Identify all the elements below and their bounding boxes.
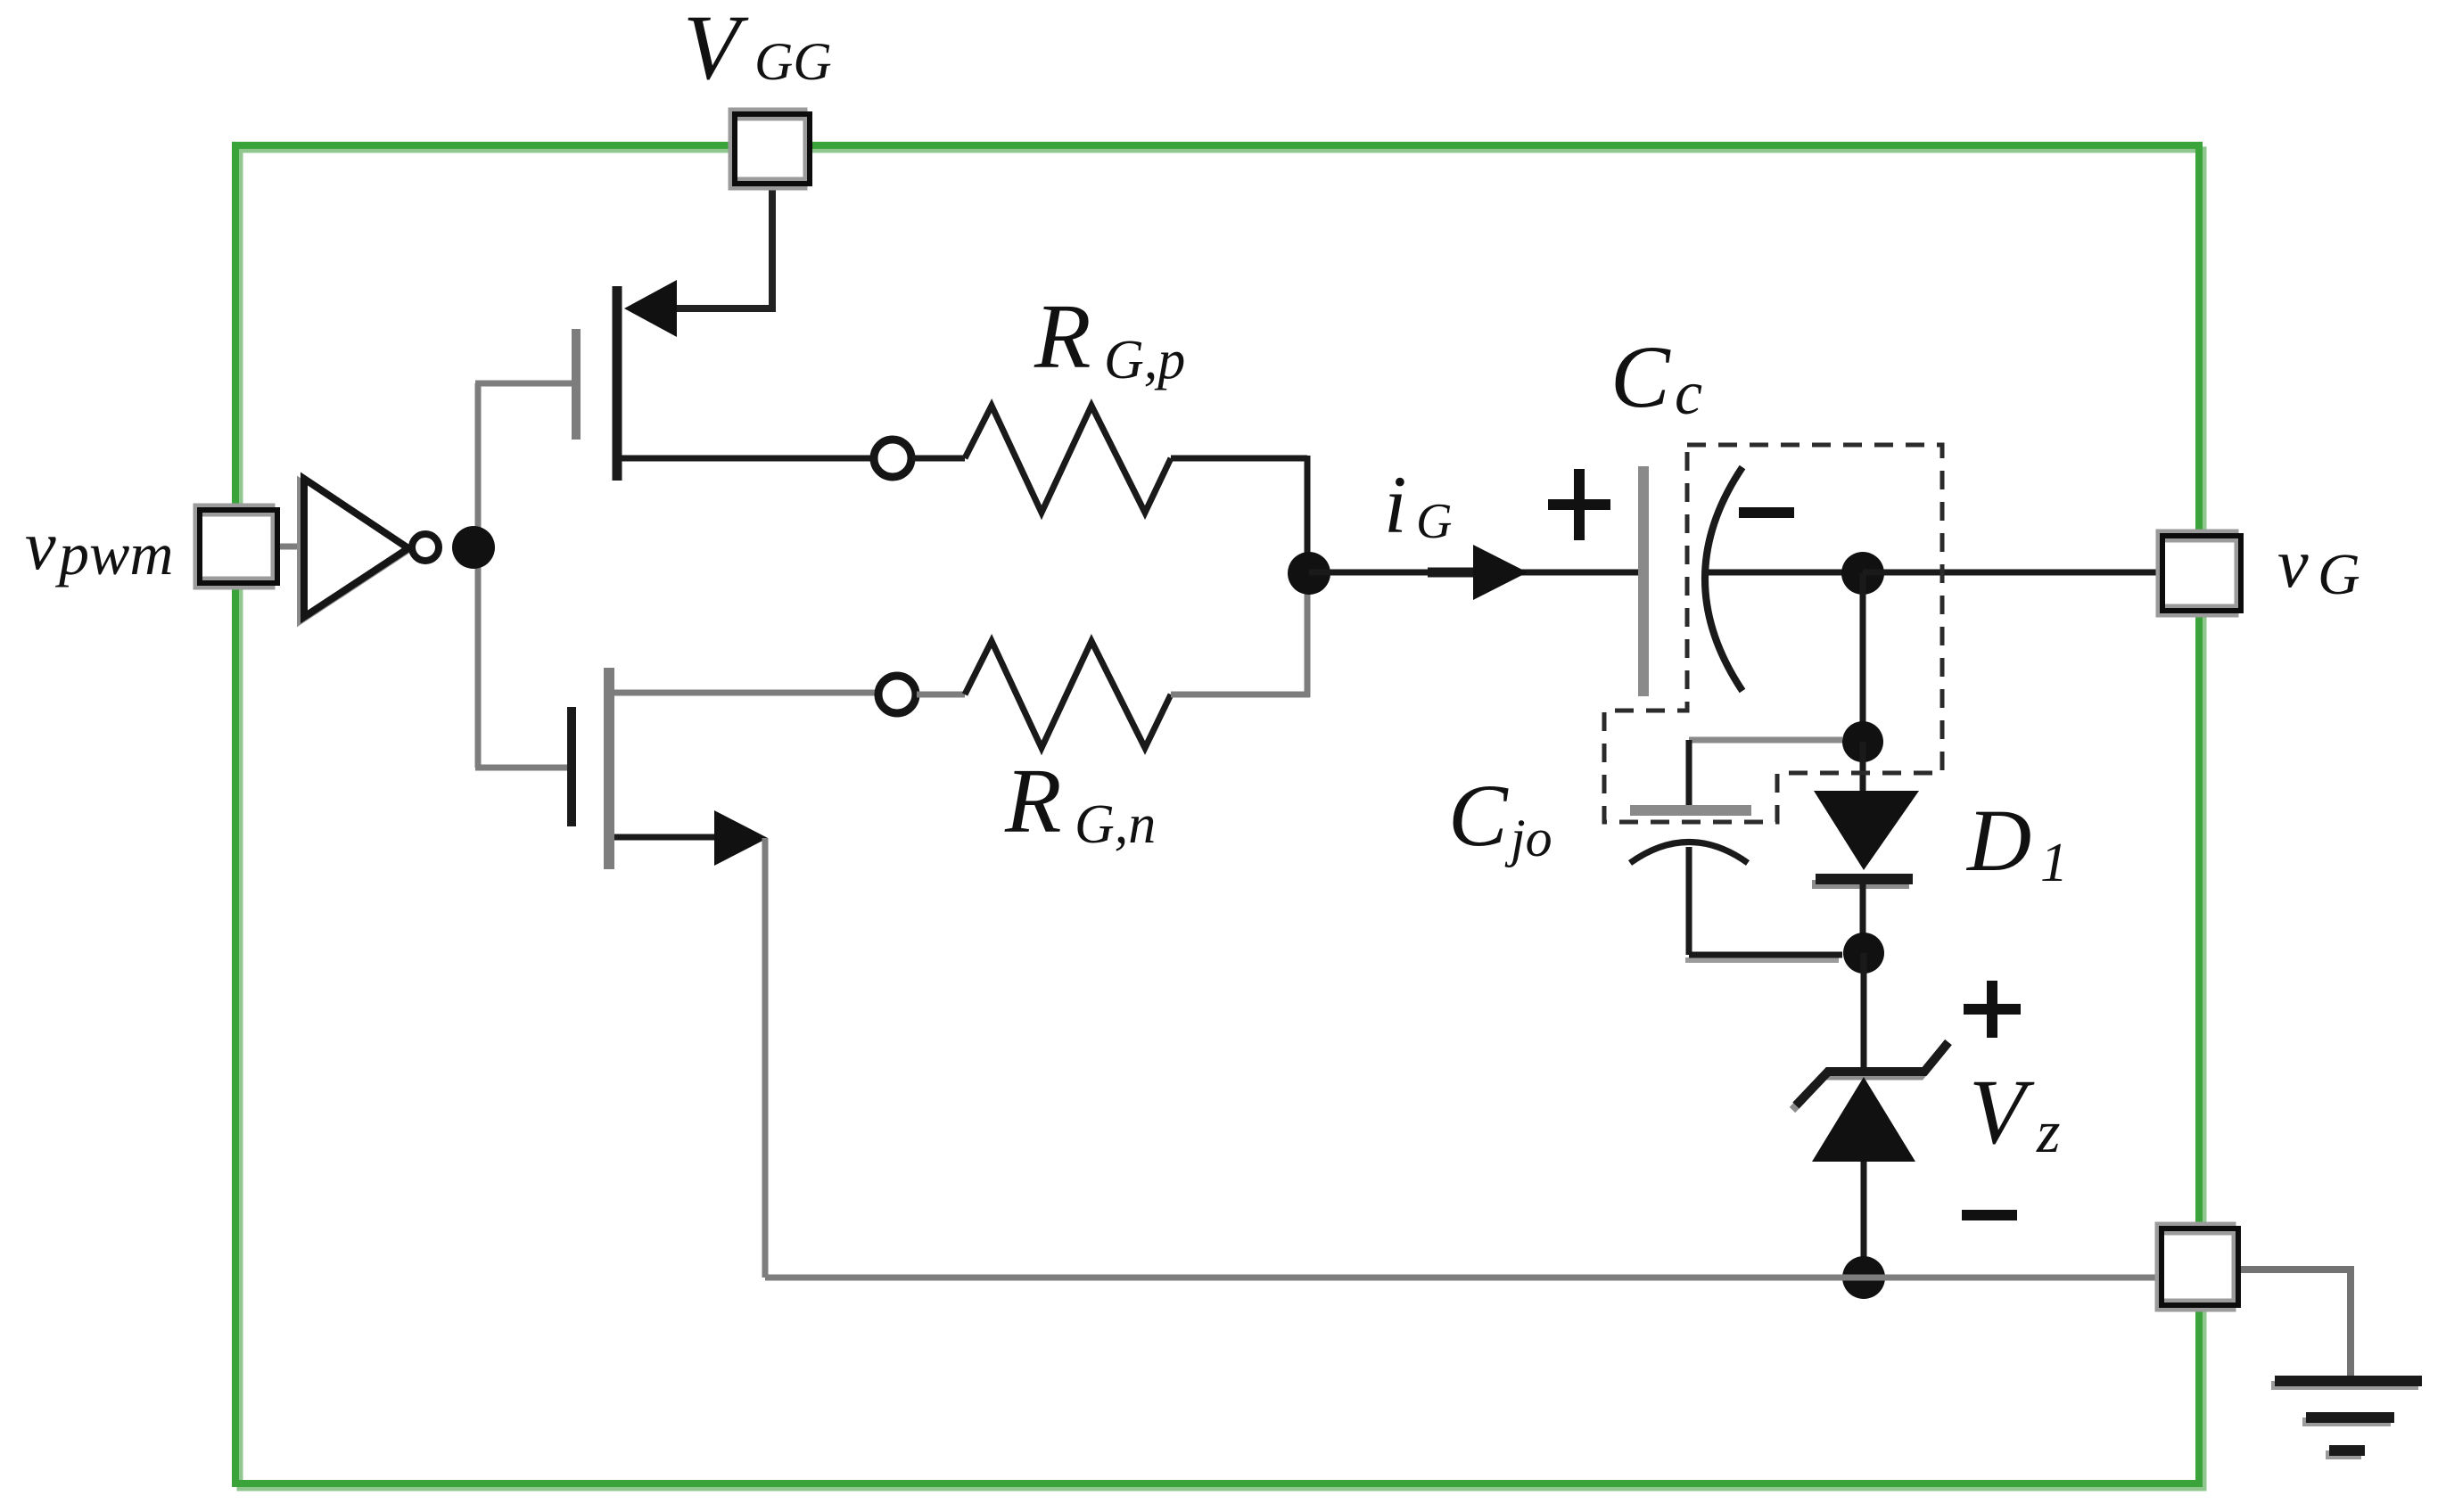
label vpwm bbox=[25, 506, 173, 588]
resistor RGp zigzag bbox=[965, 406, 1171, 513]
svg-text:GG: GG bbox=[754, 32, 832, 91]
junction: inverter output node bbox=[452, 526, 495, 569]
label D1 bbox=[1965, 791, 2068, 893]
diode D1 triangle bbox=[1814, 791, 1919, 870]
svg-text:G,p: G,p bbox=[1104, 330, 1185, 390]
svg-text:v: v bbox=[25, 506, 56, 584]
label vG bbox=[2277, 524, 2360, 607]
wire: ground terminal to ground symbol bbox=[2240, 1270, 2351, 1377]
svg-text:c: c bbox=[1675, 359, 1702, 428]
diode D1 cathode bar bbox=[1812, 879, 1913, 884]
wire: NMOS source down to bottom rail bbox=[762, 838, 769, 1278]
label RGn bbox=[1004, 750, 1156, 855]
wire: PMOS drain to RGp bbox=[622, 456, 874, 462]
wire: RGp output to node bbox=[1171, 456, 1307, 462]
svg-text:G: G bbox=[1416, 494, 1452, 549]
label Cc bbox=[1610, 327, 1702, 428]
label RGp bbox=[1034, 285, 1185, 390]
wire: PMOS source to VGG bbox=[674, 187, 772, 308]
capacitor Cjo curved plate bbox=[1630, 842, 1748, 864]
wire: vG node to vG terminal bbox=[1863, 570, 2162, 576]
svg-text:C: C bbox=[1610, 327, 1671, 426]
junction: vG node bbox=[1841, 552, 1884, 595]
svg-text:V: V bbox=[683, 0, 749, 99]
wire: zener anode down to bottom rail bbox=[1861, 1162, 1867, 1278]
wire: inverter output vertical (gate drive node) bbox=[475, 383, 482, 768]
zener diode VZ cathode bar bbox=[1792, 1042, 1948, 1110]
wire: Cjo node down to zener bbox=[1861, 953, 1867, 1068]
plus sign at VZ bbox=[1964, 981, 2021, 1038]
capacitor Cc left plate bbox=[1638, 466, 1649, 696]
svg-text:1: 1 bbox=[2040, 833, 2068, 893]
minus sign at VZ bbox=[1962, 1210, 2017, 1220]
junction: iG node bbox=[1288, 552, 1330, 595]
junction: D1 anode node bbox=[1842, 721, 1883, 762]
wire: NMOS source stub bbox=[614, 834, 715, 841]
svg-text:V: V bbox=[1969, 1061, 2035, 1163]
wire: D1 anode node to D1 bbox=[1860, 742, 1866, 793]
wire: RGp pin to zigzag bbox=[912, 456, 965, 462]
wire: Cjo top connection bbox=[1689, 737, 1842, 744]
dashed outline around Cc and Cjo bbox=[1604, 445, 1942, 822]
junction: D1 cathode / Cjo node bbox=[1843, 933, 1884, 974]
svg-text:R: R bbox=[1034, 285, 1091, 388]
svg-text:pwm: pwm bbox=[55, 520, 173, 588]
label iG bbox=[1384, 459, 1452, 550]
wire: Cc to vG node bbox=[1707, 570, 1864, 576]
terminal VGG bbox=[730, 110, 810, 188]
capacitor Cjo bottom lead bbox=[1686, 847, 1692, 955]
resistor RGn pin circle bbox=[878, 676, 916, 713]
transistor Q1 PMOS channel bar bbox=[613, 286, 622, 481]
zener diode VZ triangle bbox=[1812, 1077, 1915, 1162]
junction: bottom rail node bbox=[1842, 1256, 1885, 1299]
transistor Q2 NMOS channel bar bbox=[604, 668, 614, 869]
terminal vG bbox=[2158, 531, 2241, 615]
svg-text:jo: jo bbox=[1504, 809, 1552, 867]
capacitor Cjo top lead bbox=[1686, 740, 1692, 806]
label VZ bbox=[1969, 1061, 2060, 1165]
resistor RGp pin circle bbox=[874, 440, 911, 477]
svg-text:C: C bbox=[1448, 766, 1509, 865]
svg-text:z: z bbox=[2036, 1097, 2060, 1165]
svg-text:R: R bbox=[1004, 750, 1062, 852]
wire: vG node down to D1 anode node bbox=[1860, 573, 1866, 742]
transistor Q2 NMOS gate bar bbox=[567, 707, 576, 826]
terminal vpwm bbox=[195, 505, 277, 588]
wire: iG node to Cc bbox=[1309, 570, 1639, 576]
inverter U1 output bubble bbox=[412, 534, 439, 561]
wire: D1 cathode to Cjo node bbox=[1860, 884, 1866, 953]
wire: RGp corner down to iG node bbox=[1305, 456, 1311, 573]
wire: node down to RGn row bbox=[1305, 573, 1311, 697]
svg-text:v: v bbox=[2277, 524, 2309, 602]
transistor Q2 NMOS source arrow bbox=[714, 810, 768, 866]
wire: PMOS gate horizontal bbox=[475, 381, 572, 387]
svg-text:D: D bbox=[1965, 791, 2031, 890]
inverter U1 triangle bbox=[301, 479, 408, 620]
wire: NMOS gate horizontal bbox=[475, 765, 568, 771]
minus sign at Cc bbox=[1739, 507, 1794, 518]
svg-text:G,n: G,n bbox=[1075, 794, 1156, 855]
label VGG bbox=[683, 0, 832, 99]
current arrow iG head bbox=[1473, 545, 1528, 600]
wire: RGn output to node bbox=[1171, 692, 1310, 698]
transistor Q1 PMOS gate bar bbox=[572, 329, 581, 440]
driver boundary green box bbox=[235, 145, 2199, 1483]
svg-text:G: G bbox=[2318, 542, 2360, 607]
wire: bottom rail bbox=[765, 1275, 2162, 1281]
plus sign at Cc bbox=[1548, 469, 1610, 540]
wire: NMOS drain to RGn bbox=[614, 690, 878, 696]
resistor RGn zigzag bbox=[965, 641, 1171, 748]
wire: Cjo bottom connection bbox=[1685, 955, 1842, 960]
wire: vpwm square to inverter input bbox=[276, 544, 303, 550]
capacitor Cc curved plate bbox=[1705, 467, 1742, 691]
svg-text:i: i bbox=[1384, 459, 1407, 550]
current arrow iG tail bbox=[1428, 568, 1474, 578]
wire: RGn pin to zigzag bbox=[917, 692, 965, 698]
transistor Q1 PMOS source arrow bbox=[624, 280, 677, 337]
label Cjo bbox=[1448, 766, 1552, 867]
ground bbox=[2271, 1381, 2422, 1455]
driver boundary green box shadow bbox=[240, 150, 2203, 1488]
capacitor Cjo top plate bbox=[1630, 805, 1751, 816]
terminal ground node bbox=[2157, 1224, 2238, 1310]
